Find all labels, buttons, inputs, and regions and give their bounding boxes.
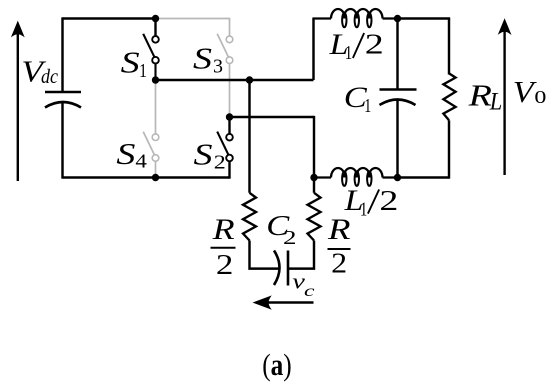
label L1/2 top bbox=[328, 28, 383, 64]
wire top rail right bbox=[398, 17, 451, 19]
svg-text:4: 4 bbox=[135, 151, 147, 173]
svg-text:S: S bbox=[194, 138, 213, 172]
inductor L1/2 bottom bbox=[314, 168, 398, 186]
wire top rail left bbox=[63, 17, 156, 19]
wire node B down to bottom inductor bbox=[313, 116, 315, 178]
wire top inductor riser bbox=[312, 19, 314, 81]
inductor L1/2 top bbox=[312, 9, 397, 27]
resistor RL bbox=[443, 73, 455, 120]
resistor R/2 left bbox=[243, 193, 256, 241]
svg-text:1: 1 bbox=[360, 199, 368, 221]
wire RL top lead bbox=[448, 19, 450, 75]
junction node bottom inductor right bbox=[394, 174, 401, 181]
arrow vc bbox=[253, 295, 314, 309]
label vc bbox=[292, 269, 314, 301]
switch S2 (black) bbox=[217, 117, 233, 179]
svg-text:2: 2 bbox=[214, 152, 226, 174]
junction node bottom inductor left bbox=[310, 174, 317, 181]
wire left leg lower bbox=[61, 102, 63, 179]
switch S4 (open, gray) bbox=[143, 80, 159, 178]
svg-text:S: S bbox=[116, 137, 135, 171]
junction node top inductor right bbox=[394, 15, 401, 22]
svg-text:1: 1 bbox=[139, 60, 147, 82]
svg-text:1: 1 bbox=[364, 95, 371, 117]
label C1 bbox=[344, 81, 372, 117]
label Vdc bbox=[21, 54, 58, 89]
junction node B bbox=[226, 113, 233, 120]
svg-text:V: V bbox=[513, 74, 537, 109]
resistor R/2 right bbox=[308, 193, 321, 241]
wire node B horizontal bbox=[230, 116, 315, 118]
arrow Vdc bbox=[11, 21, 25, 181]
wire right R/2 bottom lead bbox=[288, 241, 314, 269]
svg-text:(a): (a) bbox=[262, 348, 292, 382]
svg-text:0: 0 bbox=[534, 87, 546, 107]
svg-text:2: 2 bbox=[365, 30, 384, 61]
junction node S4 bottom bbox=[152, 174, 159, 181]
wire gray top rail S1 to S3 bbox=[156, 18, 231, 20]
label RL bbox=[467, 77, 502, 115]
switch S3 (open, gray) bbox=[217, 19, 233, 118]
label S4 bbox=[116, 137, 146, 173]
wire bottom rail bbox=[63, 176, 230, 178]
junction node left R branch bbox=[246, 76, 253, 83]
junction node A bbox=[152, 76, 159, 83]
capacitor C1 bbox=[380, 90, 417, 106]
wire left leg upper bbox=[61, 17, 63, 92]
junction node top of S1 bbox=[152, 15, 159, 22]
capacitor C2 bbox=[274, 251, 288, 286]
svg-text:2: 2 bbox=[331, 248, 347, 279]
svg-text:1: 1 bbox=[345, 42, 353, 64]
svg-text:R: R bbox=[327, 213, 351, 246]
label S1 bbox=[121, 46, 147, 83]
svg-text:c: c bbox=[304, 283, 315, 300]
svg-text:R: R bbox=[211, 213, 234, 246]
svg-text:L: L bbox=[489, 89, 502, 116]
svg-text:dc: dc bbox=[41, 66, 58, 88]
wire left R/2 branch lead bbox=[248, 80, 250, 193]
capacitor C1 branch wire upper bbox=[396, 19, 398, 90]
wire RL bottom lead bbox=[448, 120, 450, 178]
capacitor Vdc (source cap) bbox=[45, 92, 81, 108]
svg-text:S: S bbox=[193, 42, 212, 76]
capacitor C1 branch wire lower bbox=[396, 100, 398, 178]
label V0 bbox=[513, 74, 547, 109]
wire left R/2 bottom lead bbox=[250, 241, 280, 269]
svg-text:2: 2 bbox=[379, 186, 398, 217]
label S2 bbox=[194, 138, 226, 174]
svg-text:3: 3 bbox=[213, 56, 223, 78]
svg-text:2: 2 bbox=[283, 227, 297, 249]
label R/2 left bbox=[211, 213, 236, 281]
wire node A horizontal bbox=[156, 79, 314, 81]
svg-text:R: R bbox=[467, 77, 492, 112]
wire bottom rail right bbox=[398, 176, 450, 178]
label L1/2 bottom bbox=[344, 184, 399, 221]
svg-text:2: 2 bbox=[216, 249, 234, 281]
svg-text:S: S bbox=[121, 46, 140, 80]
label S3 bbox=[193, 42, 223, 78]
arrow V0 bbox=[498, 18, 512, 175]
label R/2 right bbox=[327, 213, 351, 279]
label C2 bbox=[266, 210, 296, 249]
switch S1 (black) bbox=[143, 19, 159, 81]
wire right R/2 top lead bbox=[313, 178, 315, 193]
